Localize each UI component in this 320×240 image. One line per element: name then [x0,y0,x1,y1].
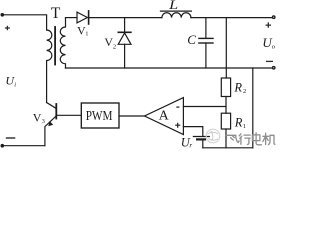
resistor R2 [221,78,230,97]
op-amp A [145,98,184,135]
capacitor C [199,37,213,39]
label opamp plus [175,123,180,128]
wire top rail to output [191,17,272,19]
wire capacitor lower lead [205,43,207,68]
wire V2 branch lower [124,44,126,68]
watermark text [226,133,275,145]
svg-text:C: C [187,32,196,47]
node input plus terminal [1,13,5,17]
wire sense branch from top rail to R2 [225,18,227,78]
label plus output [266,22,271,27]
transformer T secondary winding [60,18,65,68]
wire secondary top to diode V1 [66,17,78,19]
svg-text:A: A [159,109,170,124]
svg-text:T: T [51,5,61,22]
wire V2 branch upper [124,18,126,33]
wire right vertical to feedback rail [252,68,254,148]
transformer T primary winding [47,30,52,103]
watermark logo [206,129,220,143]
svg-text:r: r [189,142,192,150]
node output plus terminal [272,15,276,19]
wire feedback bottom rail [203,147,253,149]
diode V1 [77,12,87,23]
wire capacitor upper lead [205,18,207,38]
svg-text:PWM: PWM [86,109,113,124]
block PWM [81,103,119,128]
wire R2 to R1 [225,97,227,114]
wire opamp plus input [183,127,202,136]
svg-text:V: V [33,110,42,124]
wire R1 lower lead [225,129,227,148]
transistor V3 [55,104,57,119]
svg-text:2: 2 [113,44,116,51]
label minus output [266,60,273,62]
wire opamp output to PWM [119,115,145,117]
inductor L [162,13,191,18]
battery Ur [193,136,209,138]
svg-text:1: 1 [243,123,246,130]
svg-text:1: 1 [85,31,88,38]
svg-text:R: R [233,80,242,94]
label plus input [5,26,10,31]
wire input bottom [2,145,45,147]
wire input top [2,15,46,30]
node output minus terminal [272,66,276,70]
node input minus terminal [1,144,5,148]
wire top rail after V1 [89,17,162,19]
wire bottom output rail [66,67,273,69]
resistor R1 [221,113,230,129]
wire opamp minus input [183,106,226,108]
diode V2 [118,31,131,33]
svg-text:2: 2 [243,88,246,95]
svg-text:i: i [14,81,16,88]
wire PWM to transistor base [57,114,82,116]
transformer T core [54,27,56,65]
svg-text:L: L [168,0,178,12]
transistor V3 emitter arrow [48,121,53,126]
label opamp minus [176,106,179,108]
label minus input [6,137,16,139]
svg-text:R: R [234,116,243,130]
svg-text:3: 3 [42,118,45,125]
